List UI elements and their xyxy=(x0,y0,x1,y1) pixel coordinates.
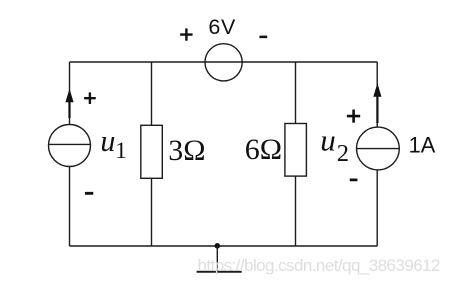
svg-text:u: u xyxy=(100,123,115,158)
wire: top rail from left corner through V1 to right corner xyxy=(70,61,378,63)
wire: left branch upper segment xyxy=(69,62,71,125)
polarity - of u2 xyxy=(350,179,358,182)
ground symbol bar xyxy=(197,271,242,273)
current arrow of source u1 (points up) xyxy=(65,89,73,118)
label u2 xyxy=(320,123,349,167)
polarity + of u2 xyxy=(347,110,360,123)
node: junction dot at ground tap xyxy=(215,243,221,249)
svg-text:1A: 1A xyxy=(409,133,436,158)
svg-text:2: 2 xyxy=(337,140,349,167)
svg-text:6V: 6V xyxy=(208,15,236,39)
wire: 3-ohm branch upper segment xyxy=(151,62,153,125)
label u1 xyxy=(100,123,126,163)
svg-text:https://blog.csdn.net/qq_38639: https://blog.csdn.net/qq_38639612 xyxy=(198,256,441,275)
wire: bottom rail xyxy=(70,245,378,247)
svg-text:u: u xyxy=(320,123,336,158)
polarity + of u1 xyxy=(84,92,96,104)
wire: right branch lower segment xyxy=(376,170,378,246)
current arrow of source 1A (points up) xyxy=(373,83,381,123)
svg-text:6Ω: 6Ω xyxy=(245,133,282,166)
current source I1 circle with horizontal bar xyxy=(357,127,400,170)
wire: right branch upper segment xyxy=(376,62,378,127)
polarity - of u1 xyxy=(85,192,93,195)
polarity - of V1 xyxy=(259,36,267,39)
wire: 6-ohm branch upper segment xyxy=(295,62,297,124)
wire: 3-ohm branch lower segment xyxy=(151,178,153,246)
wire: ground stem xyxy=(216,246,218,272)
source U1 circle with horizontal bar xyxy=(49,125,91,167)
voltage source V1 (6V) circle on top rail xyxy=(205,44,242,81)
wire: left branch lower segment xyxy=(69,166,71,246)
svg-text:1: 1 xyxy=(115,138,127,163)
polarity + of V1 xyxy=(180,28,193,40)
svg-text:3Ω: 3Ω xyxy=(168,134,205,167)
resistor R2 (6 ohm) body xyxy=(285,124,307,177)
resistor R1 (3 ohm) body xyxy=(141,125,163,178)
wire: 6-ohm branch lower segment xyxy=(295,176,297,246)
